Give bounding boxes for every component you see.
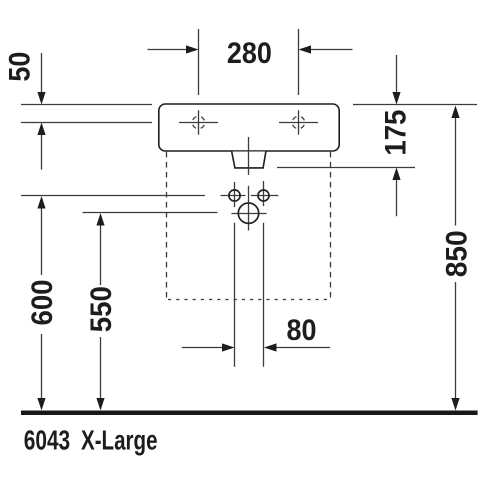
sink body outline bbox=[159, 104, 339, 151]
supply leg lines to floor bbox=[235, 223, 264, 367]
hidden installation box (dashed) bbox=[167, 152, 331, 300]
dimension 50 extension lines bbox=[21, 105, 152, 123]
dimension 50 arrows bbox=[37, 53, 45, 170]
svg-text:X-Large: X-Large bbox=[81, 425, 158, 456]
vertical centerline bbox=[248, 137, 250, 231]
dimension 80 arrows bbox=[182, 343, 330, 351]
svg-text:600: 600 bbox=[26, 280, 59, 326]
left fixing hole bbox=[221, 182, 246, 207]
svg-text:50: 50 bbox=[3, 52, 36, 82]
drain trapezoid bbox=[232, 152, 266, 168]
dimension 280 arrows bbox=[148, 45, 353, 53]
dimension 600 extension line bbox=[21, 195, 205, 197]
svg-text:175: 175 bbox=[380, 110, 413, 156]
svg-text:550: 550 bbox=[85, 286, 118, 332]
svg-text:280: 280 bbox=[227, 37, 272, 70]
left faucet hole cross bbox=[179, 110, 218, 134]
floor line bbox=[21, 411, 478, 416]
dimension 550 extension line bbox=[83, 212, 218, 214]
drain pipe circle bbox=[231, 213, 266, 215]
svg-text:80: 80 bbox=[287, 314, 317, 347]
dimension 850 line bbox=[451, 106, 459, 411]
dimension 280 extension lines bbox=[199, 29, 299, 95]
dimension 175 arrows bbox=[392, 55, 400, 216]
svg-text:850: 850 bbox=[440, 230, 473, 277]
dimension 600 line bbox=[37, 196, 45, 411]
dimension 175 extension lines bbox=[277, 105, 477, 168]
right faucet hole cross bbox=[279, 110, 318, 134]
right fixing hole bbox=[251, 181, 278, 206]
dimension 550 line bbox=[96, 213, 104, 411]
svg-text:6043: 6043 bbox=[24, 425, 70, 456]
